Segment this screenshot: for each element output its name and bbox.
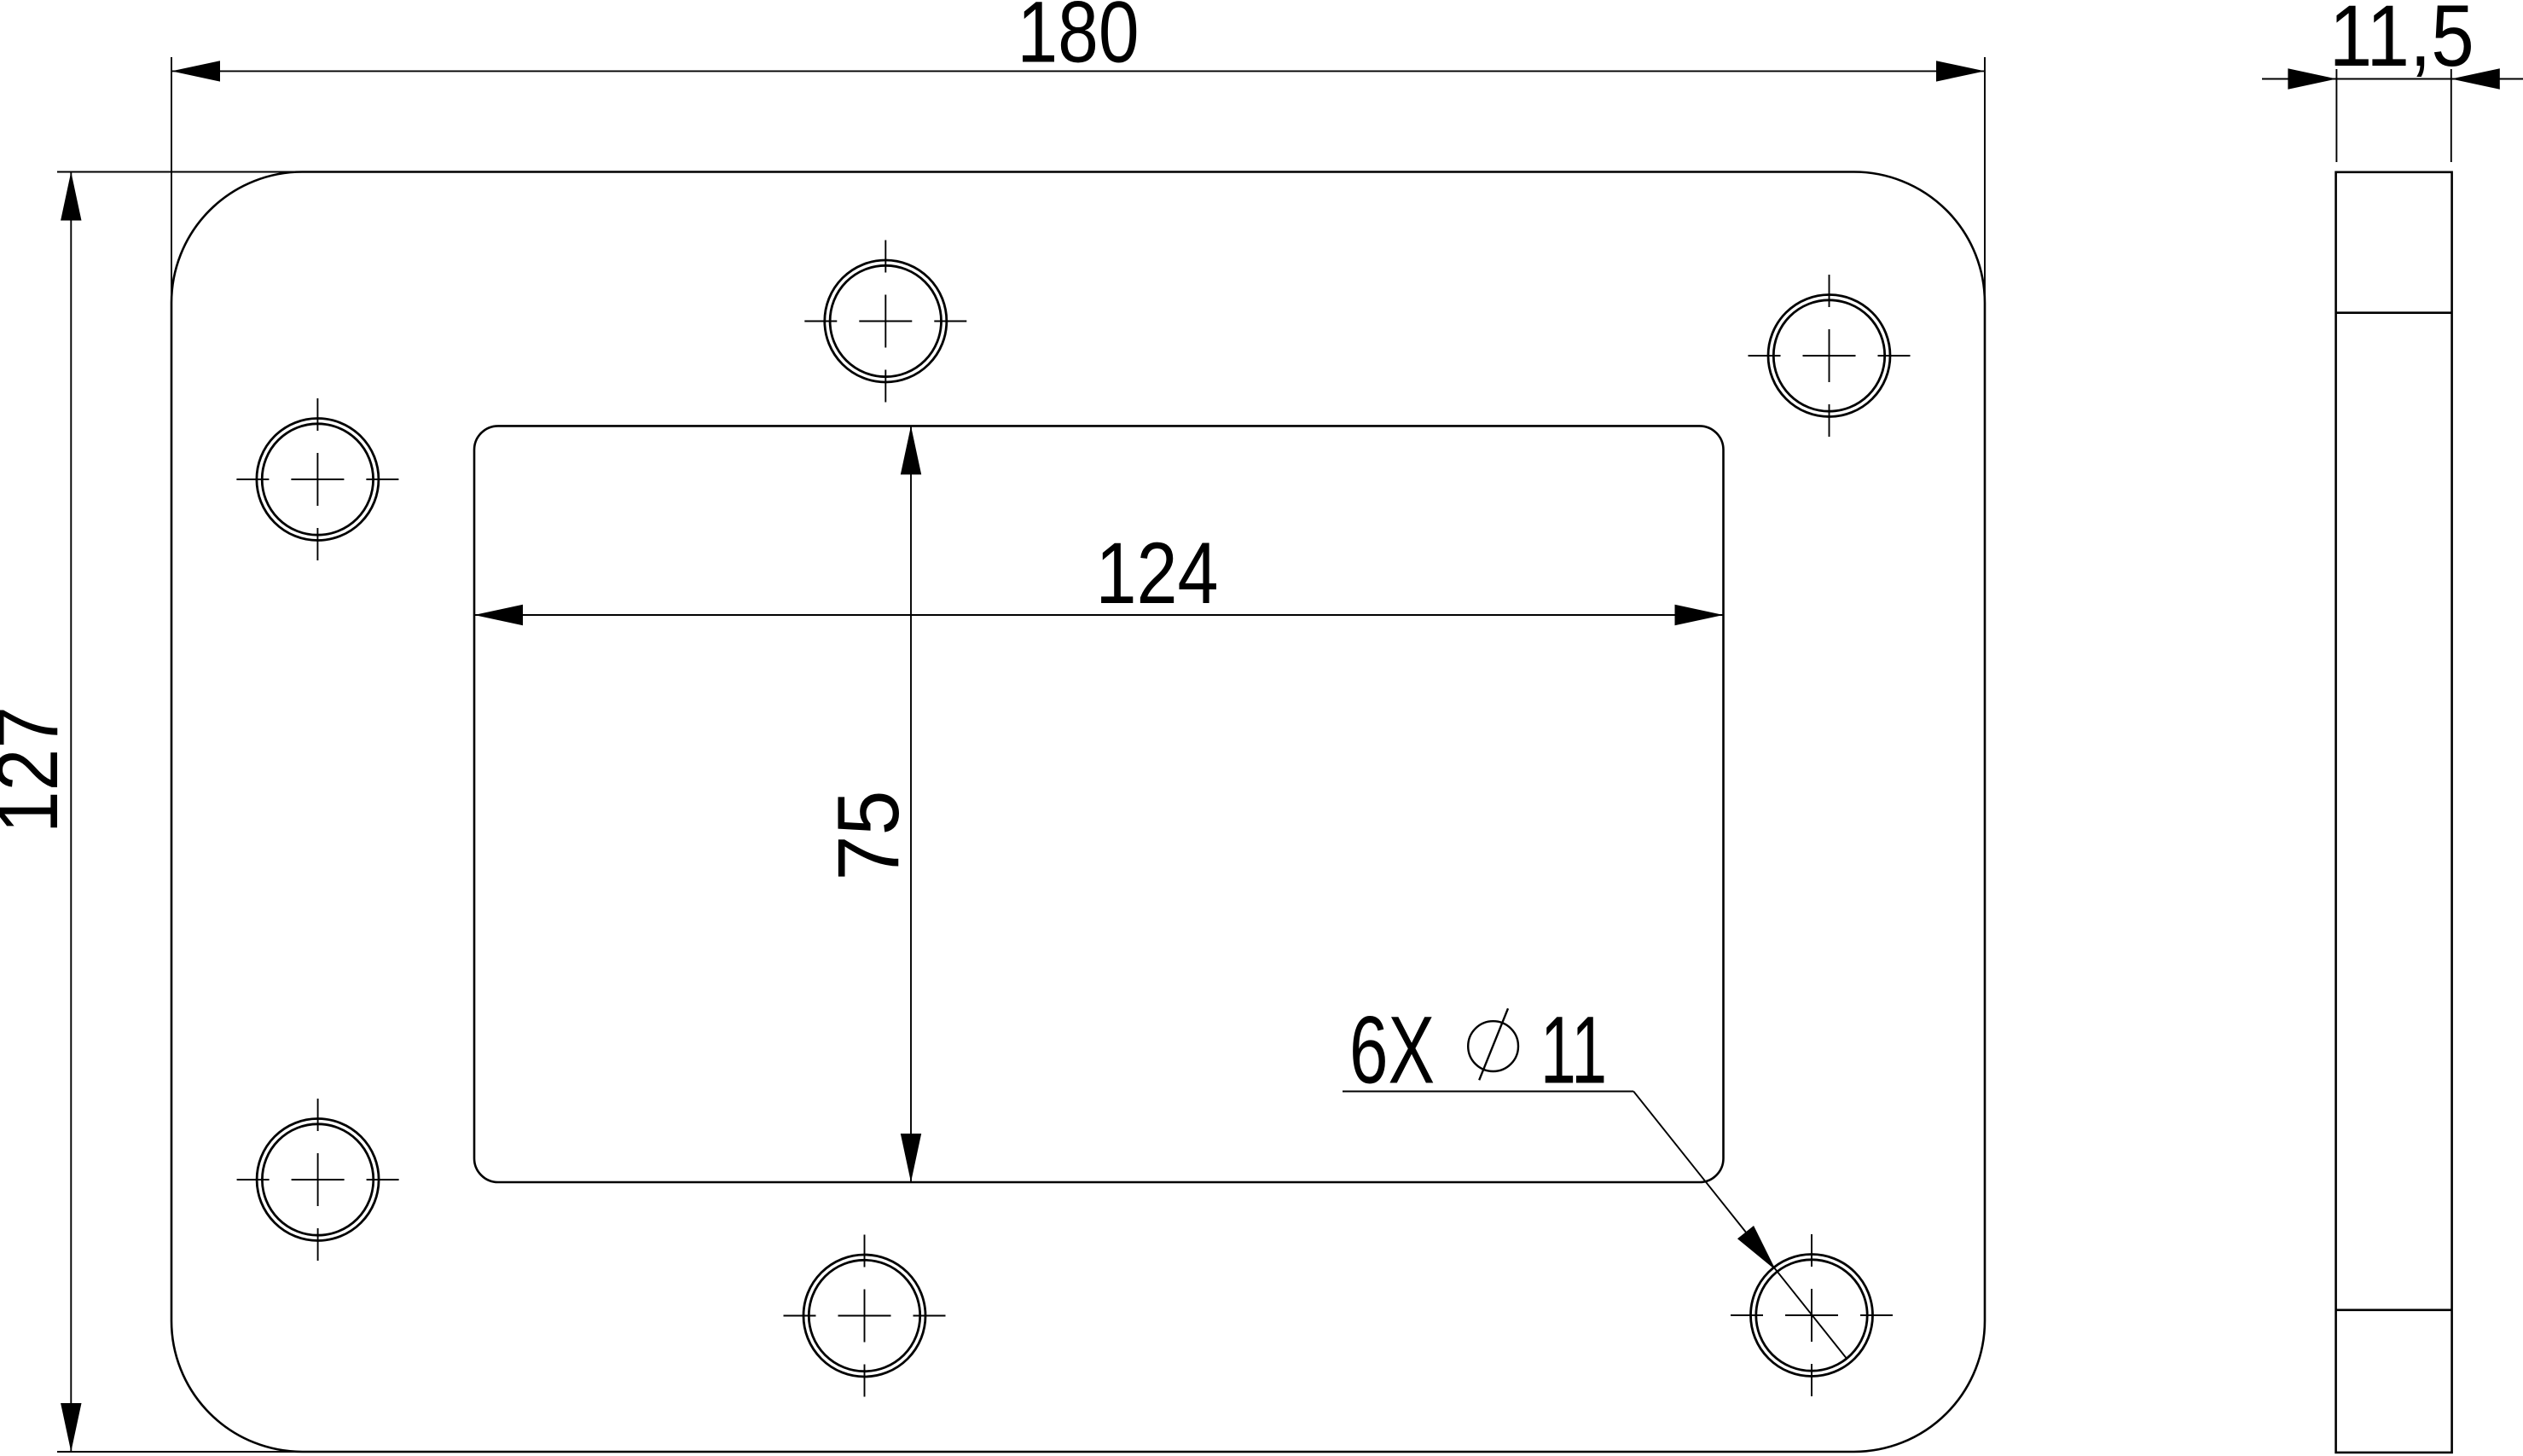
svg-text:124: 124 [1096, 525, 1219, 622]
svg-text:180: 180 [1018, 0, 1140, 81]
svg-text:11: 11 [1540, 997, 1607, 1104]
svg-text:6X: 6X [1349, 997, 1435, 1104]
svg-text:11,5: 11,5 [2329, 0, 2474, 84]
svg-text:75: 75 [820, 791, 917, 881]
svg-text:127: 127 [0, 706, 76, 833]
